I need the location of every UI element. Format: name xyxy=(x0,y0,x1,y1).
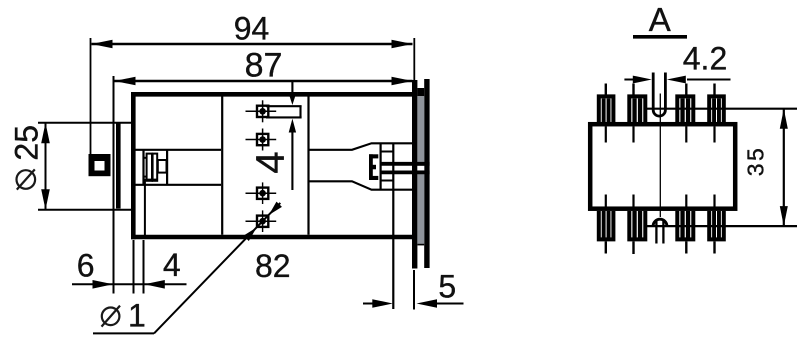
top boss 2 wires xyxy=(632,84,634,97)
svg-text:82: 82 xyxy=(255,248,291,284)
top boss 4 xyxy=(709,96,724,122)
svg-text:4.2: 4.2 xyxy=(683,40,727,76)
contact pin 4 xyxy=(246,210,277,232)
dim 4 up arrow xyxy=(289,119,296,190)
body outline xyxy=(131,92,413,239)
top boss 3 pins xyxy=(680,98,690,122)
inner line H2 xyxy=(136,184,222,186)
flange plate xyxy=(412,80,417,269)
bottom boss 4 wire xyxy=(713,241,715,253)
bottom boss 1 wire xyxy=(605,241,607,253)
centerline axis xyxy=(659,94,661,218)
top boss 1 xyxy=(599,96,614,122)
central tube walls xyxy=(653,73,665,111)
top boss 3 inner stub xyxy=(685,127,687,143)
dimension D25 top extension xyxy=(38,122,132,124)
dimension 94 line xyxy=(92,40,413,49)
svg-text:6: 6 xyxy=(77,247,95,283)
diameter 1 leader xyxy=(93,202,282,334)
partition 2 xyxy=(307,97,309,235)
dim 35 line xyxy=(780,109,788,226)
top boss 1 wires xyxy=(605,84,607,97)
svg-text:4: 4 xyxy=(249,151,293,173)
contact pin 1 xyxy=(246,100,277,122)
base plate line xyxy=(392,143,394,309)
inner line H1 xyxy=(136,149,222,151)
bottom extension inner xyxy=(143,240,145,294)
top boss 4 wires xyxy=(713,84,715,97)
contact pin 2 xyxy=(246,129,277,151)
svg-text:1: 1 xyxy=(128,298,146,334)
dimension D25 bottom extension xyxy=(38,209,132,211)
top boss 2 xyxy=(629,96,645,122)
center pin line top xyxy=(381,162,429,166)
panel surface line bottom xyxy=(646,225,798,227)
central tube U arc xyxy=(653,110,665,116)
bottom dome arc xyxy=(653,219,667,226)
svg-text:4: 4 xyxy=(163,247,181,283)
svg-text:35: 35 xyxy=(743,146,769,177)
dimension 87 line xyxy=(115,77,413,86)
armature end vertical xyxy=(380,143,382,189)
bottom boss 2 inner stub xyxy=(632,195,634,207)
bottom boss 3 xyxy=(677,211,693,239)
diameter 1 text xyxy=(102,306,121,327)
E contact xyxy=(369,154,378,180)
svg-text:94: 94 xyxy=(234,10,270,46)
header line top xyxy=(381,151,393,153)
94 left extension line xyxy=(90,38,92,154)
svg-text:87: 87 xyxy=(245,47,283,85)
bottom boss 1 xyxy=(599,211,614,239)
bottom boss 3 inner stub xyxy=(685,195,687,207)
dim 4 down arrow xyxy=(289,81,296,105)
bottom extension body edge xyxy=(133,240,135,294)
panel right bar xyxy=(424,79,429,268)
dim 4.2 arrows xyxy=(624,76,730,84)
bottom boss 1 pins xyxy=(602,211,611,238)
top boss 3 xyxy=(677,96,693,122)
bottom boss 3 pins xyxy=(680,211,690,238)
bottom boss 3 wire xyxy=(685,241,687,253)
panel gray gasket xyxy=(417,96,424,245)
A body outline xyxy=(590,124,735,209)
bottom center wire xyxy=(655,220,657,244)
svg-text:5: 5 xyxy=(438,269,456,305)
header line bottom xyxy=(381,180,393,182)
rear cover thick bar xyxy=(116,123,121,209)
top boss 1 pins xyxy=(602,98,611,122)
center pin line bottom xyxy=(381,170,429,174)
inner vertical V1 xyxy=(142,150,144,185)
panel surface line top xyxy=(646,108,798,110)
bottom boss 4 pins xyxy=(712,211,721,238)
top boss 3 wires xyxy=(685,84,687,97)
dim 5 arrows xyxy=(363,299,464,308)
bottom boss 2 wire xyxy=(632,241,634,254)
gasket bottom edge xyxy=(417,244,424,246)
armature funnel bottom xyxy=(310,181,413,189)
armature funnel top xyxy=(310,143,413,150)
87 left extension / rear face line xyxy=(113,76,115,294)
dim 4 bracket xyxy=(266,106,302,117)
top boss 4 pins xyxy=(712,98,721,122)
top boss 2 inner stub xyxy=(632,127,634,143)
coil plug bars xyxy=(144,154,167,181)
top boss 1 inner stub xyxy=(605,127,607,143)
bottom boss 4 inner stub xyxy=(713,195,715,207)
bottom dim line 6/4 xyxy=(72,280,187,289)
bottom boss 2 xyxy=(629,211,645,239)
bottom boss 1 inner stub xyxy=(605,195,607,207)
bottom boss 4 xyxy=(709,211,724,239)
partition 1 xyxy=(221,97,223,235)
svg-text:25: 25 xyxy=(8,125,44,161)
flange bridge xyxy=(417,88,424,96)
top boss 2 pins xyxy=(632,98,642,122)
mounting stud xyxy=(89,154,111,176)
top boss 4 inner stub xyxy=(713,127,715,143)
dimension D25 diameter symbol xyxy=(17,169,36,189)
view label underline xyxy=(633,35,687,39)
contact pin 3 xyxy=(246,182,277,204)
pin hole in gasket xyxy=(417,166,424,171)
94/87 right extension line xyxy=(413,38,415,80)
svg-text:A: A xyxy=(649,1,671,38)
coil plug lead wire xyxy=(145,180,157,235)
coil core divider xyxy=(166,150,168,185)
dimension D25 line xyxy=(41,123,50,210)
bottom boss 2 pins xyxy=(632,211,642,238)
dim 5 right extension xyxy=(413,270,415,310)
